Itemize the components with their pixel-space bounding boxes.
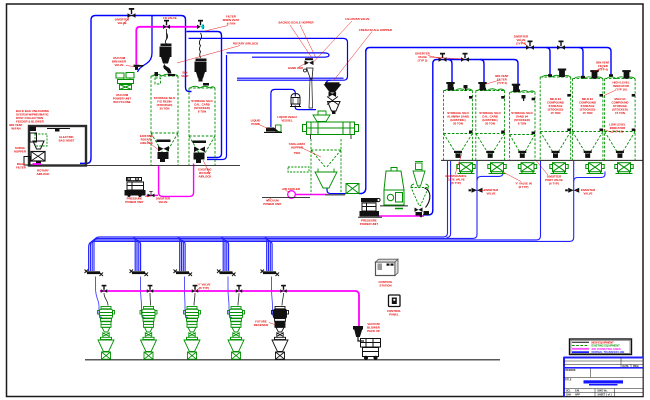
svg-text:30 TON: 30 TON <box>453 122 463 126</box>
silo R3 <box>510 92 535 160</box>
liquid weigh vessel <box>290 94 301 107</box>
air line pressure unit2 to cyclone valve <box>378 215 425 217</box>
svg-text:STATION: STATION <box>379 284 391 288</box>
wire capsule pair y53 <box>227 53 330 57</box>
legend new equipment <box>572 341 589 343</box>
pressure power unit near bulk bag <box>125 178 145 197</box>
Y-valves on magenta manifold <box>101 285 287 293</box>
svg-text:VALVE: VALVE <box>583 192 592 196</box>
svg-text:30 TON: 30 TON <box>160 107 170 111</box>
legend box <box>570 339 632 355</box>
diverter valve on x477 <box>472 188 483 193</box>
valve on magenta at 419.5 (by cyclone) <box>420 211 429 217</box>
bag dump station <box>384 168 404 209</box>
vent elbow R3 <box>522 95 526 99</box>
diverter valve on x573.7 <box>568 188 579 193</box>
diverter valves on y47.5 header <box>526 41 534 50</box>
pipe drop F3 <box>177 237 180 271</box>
pipe bundle line1b twin <box>447 161 451 238</box>
svg-text:HOPPER: HOPPER <box>291 146 303 150</box>
valve on top line x131 <box>128 8 136 18</box>
svg-text:(6 TYP): (6 TYP) <box>519 185 529 189</box>
title block <box>564 358 644 397</box>
svg-text:CHK: CHK <box>566 395 571 397</box>
gate+rotary R4 <box>552 151 560 153</box>
level switches <box>469 96 473 99</box>
station 1 receiver <box>98 307 115 360</box>
svg-text:(TYP 16): (TYP 16) <box>612 130 623 134</box>
control station <box>376 259 399 275</box>
svg-text:RECEIVER: RECEIVER <box>254 323 269 327</box>
svg-text:S.M.: S.M. <box>575 391 580 393</box>
silo L1 bottom airlock <box>157 140 171 163</box>
air line cooler to mixer <box>296 194 331 196</box>
air line stub at bulk feeder <box>33 163 42 165</box>
gate+rotary R3 <box>518 151 526 153</box>
ground bag dump <box>380 205 408 207</box>
valves on diverter verticals <box>469 188 580 193</box>
ground right silos <box>441 159 643 161</box>
ground mixer discharge <box>325 194 345 196</box>
svg-text:FILL/PASS VALVE: FILL/PASS VALVE <box>345 17 369 21</box>
air line vacuum breaker <box>136 27 199 65</box>
station 5 future receiver (black) <box>272 307 289 360</box>
diverter valve after ppu1 <box>148 194 155 198</box>
black squiggles Y-valve to stations <box>104 293 284 306</box>
svg-text:& FAN: & FAN <box>227 22 236 26</box>
svg-text:POWER UNIT: POWER UNIT <box>263 202 281 206</box>
wire second drop to silo2 airlock <box>207 55 227 160</box>
silo L2 storage silo <box>189 88 215 165</box>
wire bulk-bag vacuum loop <box>80 16 192 164</box>
station 2 receiver <box>140 307 157 360</box>
mixer inlet hopper <box>313 111 330 122</box>
cyan end tick <box>201 24 205 29</box>
blue landing flanges on silo tops <box>450 74 613 92</box>
svg-text:(TYP 4): (TYP 4) <box>598 68 608 72</box>
svg-text:VALVE: VALVE <box>117 21 126 25</box>
wire y78 line <box>237 77 344 79</box>
svg-text:POWER UNIT: POWER UNIT <box>360 222 378 226</box>
svg-text:FILTER: FILTER <box>16 166 26 170</box>
wire mixer discharge to takeaway box <box>327 189 346 194</box>
red leader lines <box>123 17 615 325</box>
legend vacuum transfer line <box>572 351 589 353</box>
wire branch to vacuum power unit <box>138 16 153 73</box>
pipe elbow box5 <box>574 172 605 182</box>
wire liquid pump to weigh vessel <box>271 89 295 127</box>
existing dashed box near cooler <box>288 167 309 172</box>
wire horizontal y31.5 to silo2 feeder drop <box>187 32 222 158</box>
silo L2 dome <box>190 86 215 88</box>
cyclone black hose <box>425 188 430 208</box>
air line pressure unit feed <box>147 194 159 196</box>
mixer body <box>303 122 359 135</box>
svg-text:HOPPER: HOPPER <box>14 150 26 154</box>
ground stations row <box>85 359 500 361</box>
wire vacuum header y59.5 silo1-3 fill <box>433 60 518 211</box>
silo R6 <box>605 79 636 160</box>
silo L1 dome <box>152 74 178 76</box>
liquid pump <box>264 128 282 134</box>
svg-text:(TYP 4): (TYP 4) <box>516 42 526 46</box>
svg-text:AIR COOLER: AIR COOLER <box>282 187 300 191</box>
svg-text:HAND ADD: HAND ADD <box>288 66 303 70</box>
pipe feed station5 <box>272 277 276 318</box>
svg-text:(6 TYP): (6 TYP) <box>549 182 559 186</box>
black bits on right silos: bin vents, gates, level switches <box>446 69 635 158</box>
silo R5 <box>572 79 603 160</box>
bulk bag frame inner square <box>35 134 47 146</box>
svg-text:FD VALVE: FD VALVE <box>163 16 177 20</box>
wire branch to left silo1 top <box>448 60 452 89</box>
wire branch to left silo2 top <box>480 60 484 90</box>
svg-text:8 TON: 8 TON <box>518 122 526 126</box>
label bulk bag unloading <box>16 109 50 124</box>
svg-text:(TYP 4): (TYP 4) <box>497 81 507 85</box>
red text labels <box>9 15 629 334</box>
bundle header fittings <box>85 270 280 277</box>
svg-text:AIRLOCK: AIRLOCK <box>37 172 51 176</box>
vacuum power unit w/cyclone <box>116 73 134 90</box>
svg-text:PACK UP: PACK UP <box>367 329 380 333</box>
GROUND LINES <box>29 160 643 359</box>
ground blower package left <box>262 197 310 199</box>
air line Y-valve manifold <box>100 291 359 329</box>
air line silo feeders U-loop <box>159 164 194 197</box>
hand add chute + fill/pass valve <box>305 58 314 65</box>
svg-text:ROTARY AIRLOCK: ROTARY AIRLOCK <box>233 42 259 46</box>
gate+rotary R5 <box>584 151 592 153</box>
pipe bundle line4 <box>89 161 574 271</box>
ground bulk bag area <box>29 164 240 166</box>
svg-text:W/FAN: W/FAN <box>11 127 20 131</box>
pipe feed station3 <box>185 277 189 318</box>
svg-text:(TYP 16): (TYP 16) <box>615 88 626 92</box>
bulk bag unloading frame <box>24 126 86 166</box>
wire main pressure header y47.5 to silo6 <box>366 48 611 77</box>
pipe bundle line2 <box>92 161 477 271</box>
silo L1 top black bits <box>155 72 159 76</box>
magenta breaker fitting <box>134 65 144 70</box>
filter on silo L1 <box>160 44 172 74</box>
svg-text:15 TON: 15 TON <box>615 111 625 115</box>
bin vent R1 <box>448 83 454 91</box>
svg-text:REMARK: REMARK <box>566 369 576 372</box>
sacked scale hopper <box>325 83 341 114</box>
wire hook into fresh hopper <box>327 80 331 85</box>
svg-text:VALVE: VALVE <box>114 63 123 67</box>
svg-text:NORMAL TRANSFER LINE: NORMAL TRANSFER LINE <box>592 350 625 354</box>
svg-text:TITLE: TITLE <box>565 380 572 382</box>
silo L2 slide gate <box>193 141 207 144</box>
pipe bundle line1 <box>94 161 448 271</box>
svg-text:VENT: VENT <box>181 74 189 78</box>
wire branch to silo4 <box>546 48 550 77</box>
svg-text:AIRLOCK: AIRLOCK <box>199 175 213 179</box>
svg-text:APP: APP <box>575 394 580 397</box>
station 3 receiver <box>184 307 201 360</box>
legend air conveying lines <box>572 348 589 350</box>
gate+rotary R1 <box>454 151 462 153</box>
svg-text:TWO: TWO <box>294 151 301 155</box>
silo R4 <box>540 77 571 160</box>
bin vent R2 <box>480 83 486 91</box>
pipe drop F4 <box>220 237 223 271</box>
filter on silo L2 <box>195 59 210 86</box>
svg-text:AIRLOCK: AIRLOCK <box>140 141 154 145</box>
cyclone bottom valve <box>415 208 423 216</box>
svg-text:VESSEL: VESSEL <box>281 119 292 123</box>
vacuum blower package <box>354 327 381 360</box>
pipe elbow box2 <box>477 172 503 182</box>
liquid pump green base <box>276 125 282 132</box>
gate+rotary R2 <box>486 151 494 153</box>
pipe bundle line3 <box>90 161 540 271</box>
bin vent R3 <box>513 84 519 92</box>
wire branch to silo5 <box>579 48 583 78</box>
svg-text:W/CYCLONE: W/CYCLONE <box>113 100 130 104</box>
pipe feed station2 <box>141 277 145 318</box>
station 4 receiver <box>228 307 245 360</box>
wire y38 line with drop at 347 and hook <box>189 38 348 80</box>
surge hopper outline <box>315 169 337 189</box>
mixer surge column dashed <box>311 139 341 195</box>
pipe feed station4 <box>228 277 232 318</box>
legend existing equipment <box>572 345 589 347</box>
FD valve on magenta x166.5 <box>163 20 170 29</box>
ground pressure unit2 <box>358 216 382 218</box>
pipe feed station1 <box>96 277 103 318</box>
svg-text:SACKED SCALE HOPPER: SACKED SCALE HOPPER <box>278 21 313 25</box>
svg-text:PANEL: PANEL <box>389 313 399 317</box>
svg-text:SHEET 1 of 1: SHEET 1 of 1 <box>598 395 613 397</box>
svg-text:(6 TYP): (6 TYP) <box>199 286 209 290</box>
svg-text:FRESH SCALE HOPPER: FRESH SCALE HOPPER <box>359 28 392 32</box>
silo L2 bottom airlock <box>194 147 206 164</box>
svg-text:DWG: DWG <box>633 366 639 368</box>
wire weigh vessel to mixer <box>295 106 316 110</box>
silo L1 storage silo <box>151 76 178 165</box>
svg-text:8 TON: 8 TON <box>198 110 206 114</box>
bin vent R6 <box>624 71 630 79</box>
cyclone receiver <box>411 162 429 206</box>
svg-text:15 TON: 15 TON <box>551 111 561 115</box>
svg-text:DATE: DATE <box>623 365 630 368</box>
svg-text:SCL: SCL <box>566 391 571 393</box>
vent elbow R1 <box>464 85 468 89</box>
pipe drop F2 <box>132 237 135 271</box>
silo R2 <box>476 91 505 161</box>
svg-text:(6 TYP): (6 TYP) <box>451 181 461 185</box>
takeaway box <box>346 184 359 194</box>
svg-text:DWG No.: DWG No. <box>598 391 608 393</box>
feeder boxes under silos <box>457 163 633 174</box>
svg-text:BAG HOIST: BAG HOIST <box>59 139 75 143</box>
svg-text:15 TON: 15 TON <box>583 111 593 115</box>
svg-text:VALVE: VALVE <box>486 192 495 196</box>
svg-text:PUMP: PUMP <box>251 122 259 126</box>
wire drop from header to takeaway box <box>359 50 366 194</box>
svg-text:POWER UNIT: POWER UNIT <box>125 200 143 204</box>
svg-text:30 TON: 30 TON <box>485 122 495 126</box>
gate+rotary R6 <box>616 151 624 153</box>
pressure power unit 2 (mixer) <box>360 198 380 216</box>
svg-text:VALVE: VALVE <box>158 200 167 204</box>
bin vent R4 <box>559 69 565 77</box>
bin vent R5 <box>592 71 598 79</box>
wire cyclone discharge elbow <box>423 210 433 215</box>
title blue name bars <box>584 380 624 383</box>
diverter valves on y59.5 header <box>439 53 447 62</box>
control panel <box>389 295 401 307</box>
svg-text:(TYP 2): (TYP 2) <box>418 59 428 63</box>
air cooler circle <box>288 191 296 199</box>
pipe drop F5 <box>264 237 267 271</box>
air line bulk feeder stub <box>33 164 41 166</box>
silo R1 <box>444 91 473 161</box>
mixer legs <box>311 135 352 140</box>
valve2 on magenta x200.5 <box>197 20 204 29</box>
